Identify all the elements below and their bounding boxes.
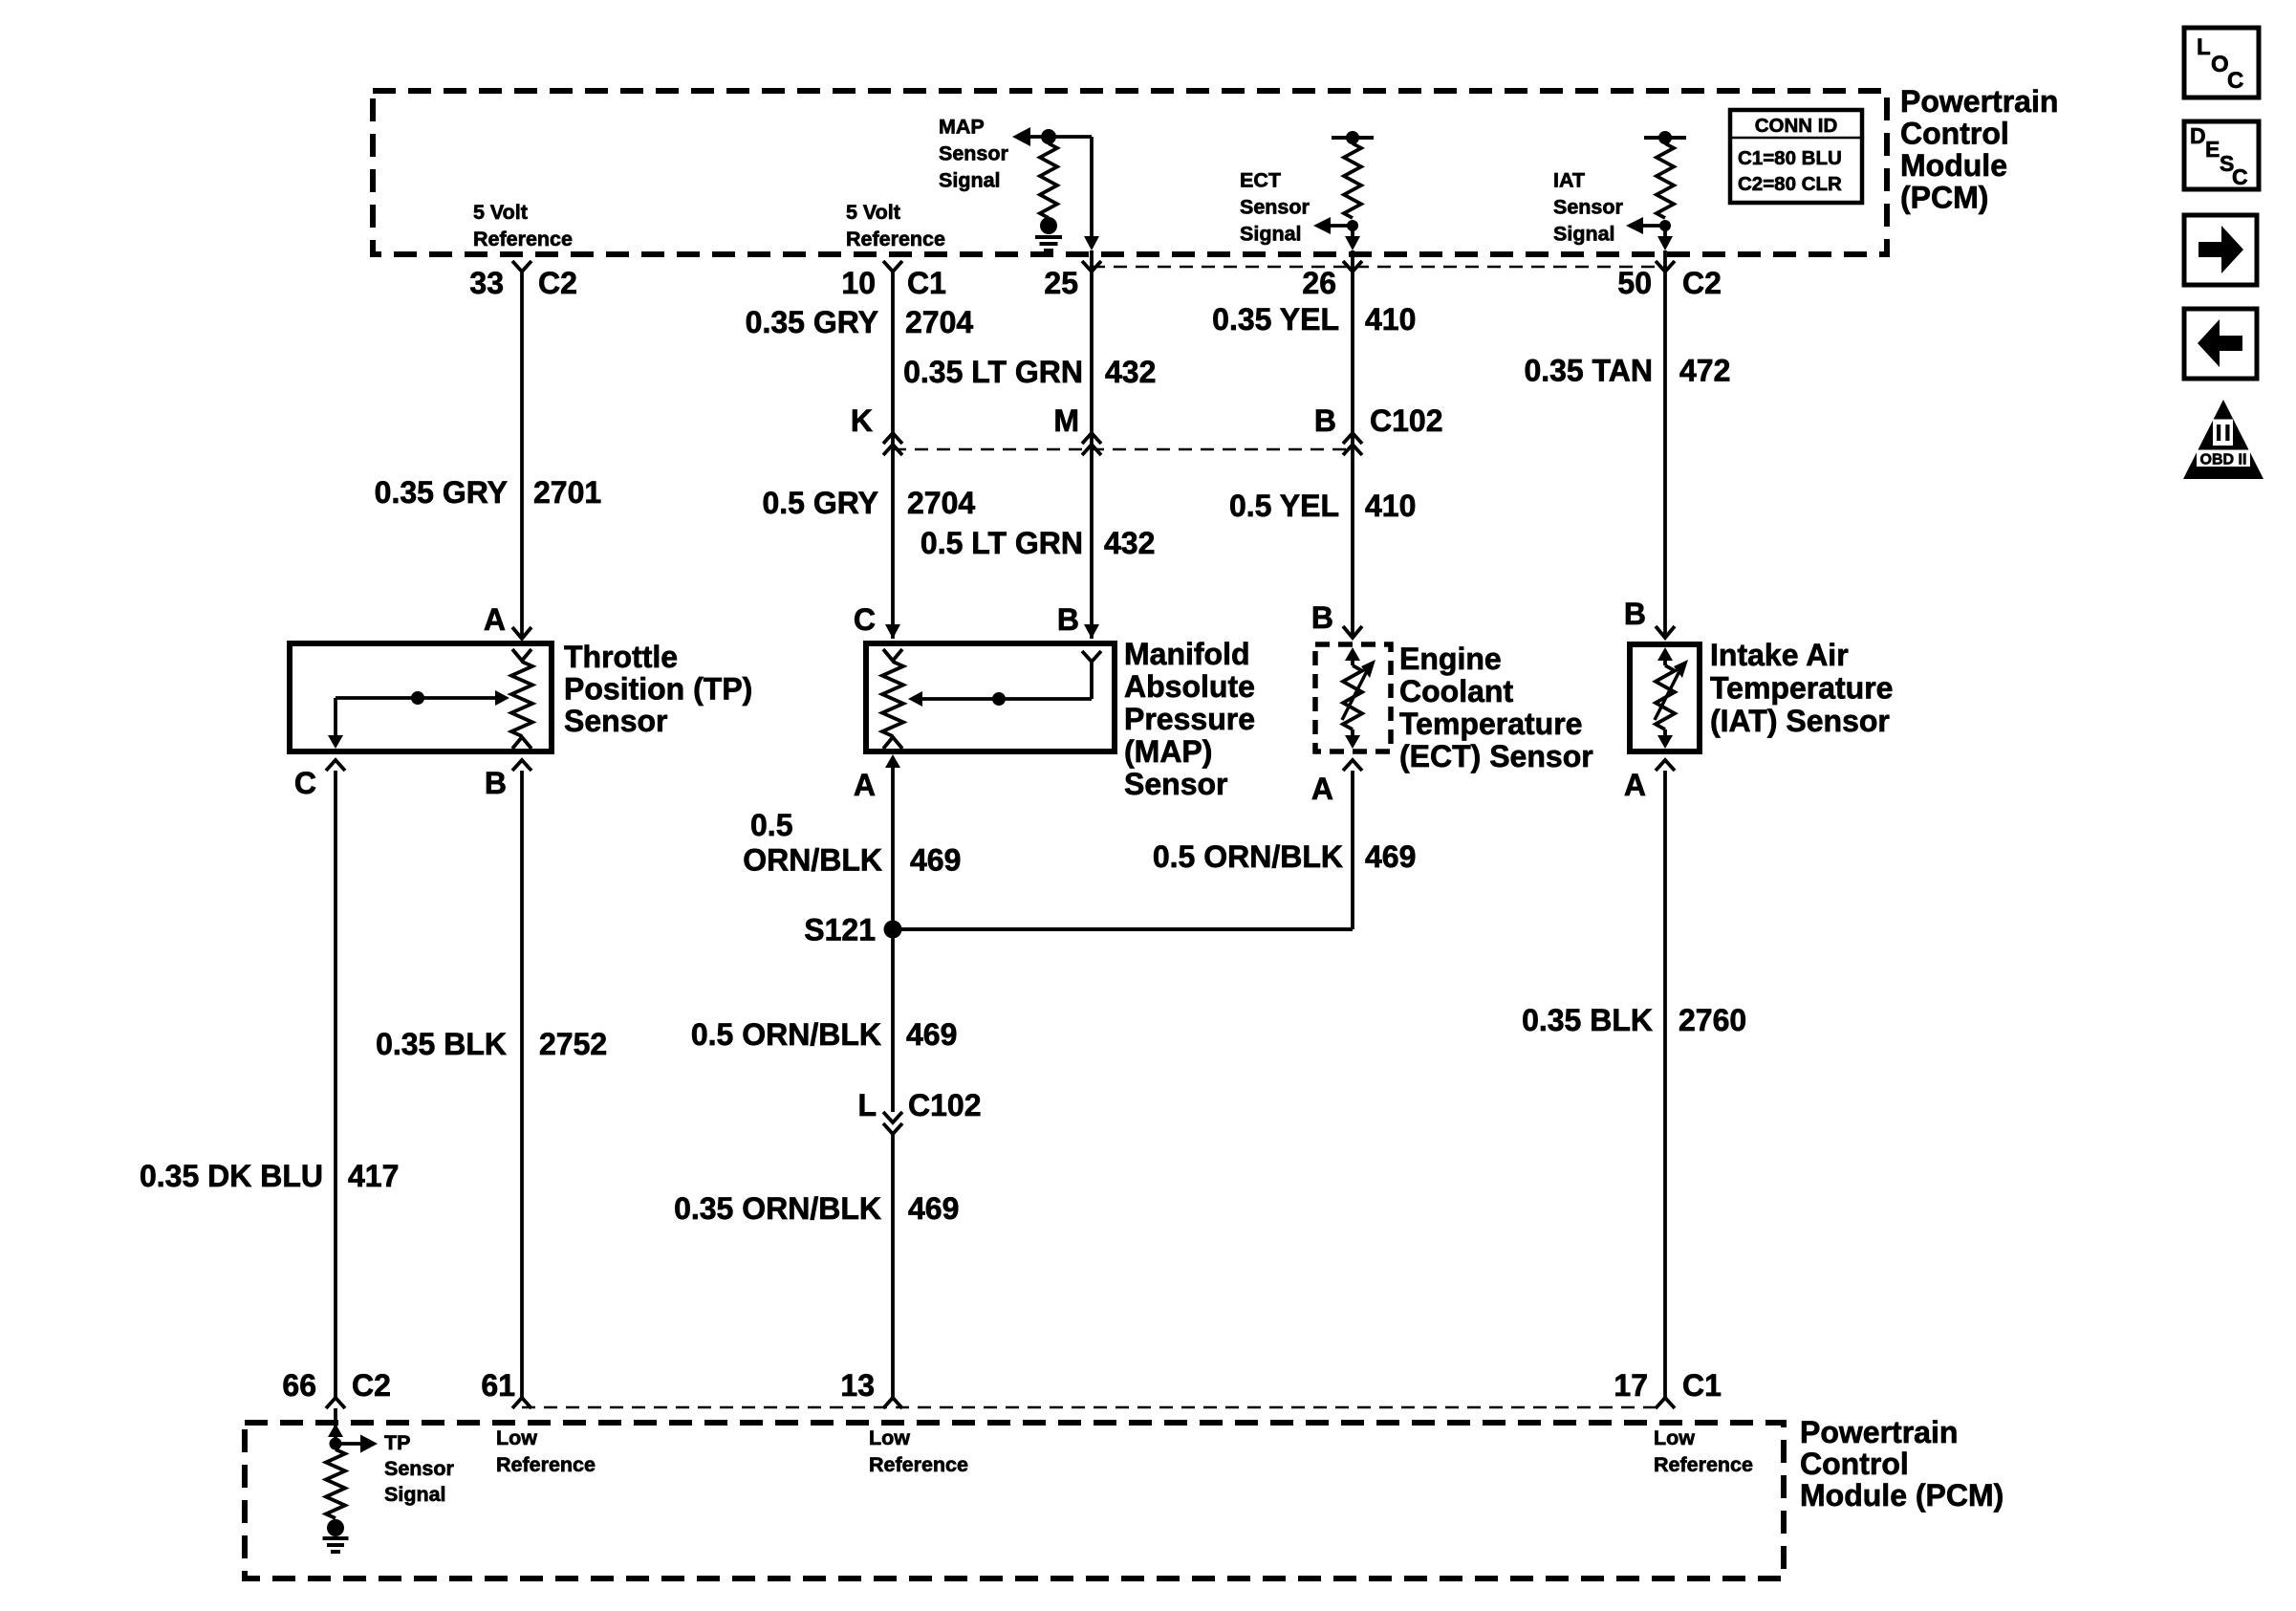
svg-text:Sensor: Sensor bbox=[1124, 767, 1227, 801]
svg-text:(ECT) Sensor: (ECT) Sensor bbox=[1399, 739, 1593, 773]
svg-text:Signal: Signal bbox=[1553, 223, 1615, 246]
svg-text:Module: Module bbox=[1900, 148, 2007, 183]
svg-text:Sensor: Sensor bbox=[1553, 196, 1624, 219]
svg-text:CONN ID: CONN ID bbox=[1755, 115, 1838, 137]
svg-text:417: 417 bbox=[348, 1159, 399, 1193]
svg-text:0.35 TAN: 0.35 TAN bbox=[1524, 354, 1653, 388]
svg-text:469: 469 bbox=[908, 1191, 959, 1226]
svg-text:2704: 2704 bbox=[905, 305, 973, 339]
svg-text:0.5 ORN/BLK: 0.5 ORN/BLK bbox=[1153, 839, 1343, 874]
svg-text:Sensor: Sensor bbox=[564, 704, 667, 738]
svg-text:Throttle: Throttle bbox=[564, 640, 678, 674]
svg-text:OBD II: OBD II bbox=[2200, 452, 2247, 468]
svg-text:Temperature: Temperature bbox=[1710, 671, 1893, 706]
svg-text:MAP: MAP bbox=[939, 116, 985, 139]
svg-text:Low: Low bbox=[869, 1426, 910, 1449]
svg-text:50: 50 bbox=[1617, 266, 1652, 300]
svg-text:0.35 BLK: 0.35 BLK bbox=[1522, 1003, 1653, 1037]
svg-text:ORN/BLK: ORN/BLK bbox=[743, 843, 882, 878]
svg-text:C2: C2 bbox=[352, 1368, 391, 1403]
svg-text:Low: Low bbox=[1654, 1426, 1695, 1449]
svg-text:0.5 GRY: 0.5 GRY bbox=[762, 486, 878, 520]
svg-text:Reference: Reference bbox=[1654, 1453, 1753, 1476]
svg-text:2701: 2701 bbox=[533, 475, 601, 510]
svg-text:C: C bbox=[294, 766, 316, 800]
svg-text:C2: C2 bbox=[538, 266, 577, 300]
svg-text:B: B bbox=[1624, 597, 1646, 631]
svg-text:Signal: Signal bbox=[939, 169, 1001, 192]
svg-text:A: A bbox=[484, 602, 506, 637]
svg-text:(IAT) Sensor: (IAT) Sensor bbox=[1710, 704, 1890, 738]
svg-text:432: 432 bbox=[1104, 526, 1155, 560]
svg-text:472: 472 bbox=[1679, 354, 1730, 388]
svg-text:B: B bbox=[1311, 600, 1333, 635]
svg-text:A: A bbox=[854, 768, 876, 802]
svg-text:Control: Control bbox=[1900, 117, 2009, 151]
svg-text:B: B bbox=[485, 766, 507, 800]
svg-text:C: C bbox=[854, 602, 876, 637]
svg-text:26: 26 bbox=[1302, 266, 1336, 300]
svg-text:Intake Air: Intake Air bbox=[1710, 638, 1849, 672]
svg-text:5 Volt: 5 Volt bbox=[846, 201, 900, 224]
svg-text:C1=80 BLU: C1=80 BLU bbox=[1738, 147, 1842, 169]
svg-text:410: 410 bbox=[1365, 489, 1416, 523]
svg-text:0.35 BLK: 0.35 BLK bbox=[376, 1027, 507, 1061]
svg-text:17: 17 bbox=[1614, 1368, 1648, 1403]
svg-text:C: C bbox=[2232, 164, 2248, 189]
svg-text:B: B bbox=[1057, 602, 1079, 637]
svg-text:66: 66 bbox=[282, 1368, 316, 1403]
svg-text:C102: C102 bbox=[1370, 403, 1443, 438]
svg-text:Reference: Reference bbox=[496, 1453, 596, 1476]
svg-text:C2: C2 bbox=[1682, 266, 1722, 300]
svg-text:13: 13 bbox=[840, 1368, 875, 1403]
svg-text:0.35 LT GRN: 0.35 LT GRN bbox=[903, 355, 1083, 389]
svg-text:Manifold: Manifold bbox=[1124, 637, 1250, 671]
svg-text:Sensor: Sensor bbox=[1240, 196, 1310, 219]
svg-text:0.5 LT GRN: 0.5 LT GRN bbox=[921, 526, 1083, 560]
svg-text:33: 33 bbox=[469, 266, 504, 300]
svg-text:0.5 ORN/BLK: 0.5 ORN/BLK bbox=[691, 1017, 881, 1052]
svg-text:Absolute: Absolute bbox=[1124, 669, 1255, 704]
svg-text:0.5: 0.5 bbox=[750, 808, 792, 842]
svg-text:5 Volt: 5 Volt bbox=[473, 201, 528, 224]
svg-text:Coolant: Coolant bbox=[1399, 674, 1513, 708]
svg-text:Pressure: Pressure bbox=[1124, 702, 1255, 736]
svg-text:L: L bbox=[2197, 34, 2211, 60]
svg-text:0.5 YEL: 0.5 YEL bbox=[1229, 489, 1339, 523]
svg-text:Low: Low bbox=[496, 1426, 537, 1449]
svg-text:25: 25 bbox=[1044, 266, 1078, 300]
svg-text:Temperature: Temperature bbox=[1399, 707, 1582, 741]
svg-text:TP: TP bbox=[384, 1431, 410, 1454]
svg-text:(PCM): (PCM) bbox=[1900, 181, 1988, 215]
svg-text:Signal: Signal bbox=[384, 1483, 446, 1506]
svg-text:Sensor: Sensor bbox=[939, 142, 1009, 165]
svg-text:A: A bbox=[1624, 768, 1646, 802]
svg-text:Reference: Reference bbox=[869, 1453, 968, 1476]
svg-text:61: 61 bbox=[481, 1368, 515, 1403]
svg-text:469: 469 bbox=[1365, 839, 1416, 874]
svg-text:L: L bbox=[857, 1088, 877, 1122]
svg-text:A: A bbox=[1311, 772, 1333, 806]
svg-text:C102: C102 bbox=[908, 1088, 982, 1122]
svg-text:10: 10 bbox=[841, 266, 876, 300]
svg-text:B: B bbox=[1314, 403, 1336, 438]
svg-text:C1: C1 bbox=[907, 266, 946, 300]
svg-text:Module (PCM): Module (PCM) bbox=[1800, 1478, 2004, 1513]
svg-text:C: C bbox=[2227, 68, 2243, 94]
svg-text:Reference: Reference bbox=[473, 228, 573, 250]
svg-text:432: 432 bbox=[1105, 355, 1156, 389]
svg-text:ECT: ECT bbox=[1240, 169, 1281, 192]
svg-text:0.35 ORN/BLK: 0.35 ORN/BLK bbox=[674, 1191, 881, 1226]
svg-text:Sensor: Sensor bbox=[384, 1457, 455, 1480]
svg-text:C2=80 CLR: C2=80 CLR bbox=[1738, 173, 1842, 195]
svg-text:O: O bbox=[2211, 52, 2229, 77]
svg-text:Engine: Engine bbox=[1399, 642, 1502, 676]
svg-text:0.35 DK BLU: 0.35 DK BLU bbox=[140, 1159, 323, 1193]
svg-text:2704: 2704 bbox=[907, 486, 975, 520]
svg-text:2760: 2760 bbox=[1679, 1003, 1746, 1037]
svg-text:410: 410 bbox=[1365, 302, 1416, 337]
svg-text:D: D bbox=[2190, 123, 2206, 148]
svg-text:469: 469 bbox=[906, 1017, 957, 1052]
svg-text:M: M bbox=[1053, 403, 1079, 438]
svg-text:Control: Control bbox=[1800, 1447, 1909, 1481]
svg-text:Reference: Reference bbox=[846, 228, 945, 250]
svg-text:S121: S121 bbox=[804, 913, 876, 947]
svg-text:0.35 GRY: 0.35 GRY bbox=[746, 305, 878, 339]
svg-text:0.35 YEL: 0.35 YEL bbox=[1212, 302, 1339, 337]
svg-text:K: K bbox=[851, 403, 873, 438]
svg-text:Powertrain: Powertrain bbox=[1800, 1415, 1958, 1449]
svg-text:0.35 GRY: 0.35 GRY bbox=[375, 475, 508, 510]
svg-text:(MAP): (MAP) bbox=[1124, 734, 1212, 769]
svg-text:IAT: IAT bbox=[1553, 169, 1585, 192]
svg-text:Powertrain: Powertrain bbox=[1900, 84, 2058, 119]
svg-text:Position (TP): Position (TP) bbox=[564, 672, 752, 707]
svg-text:2752: 2752 bbox=[539, 1027, 607, 1061]
svg-text:Signal: Signal bbox=[1240, 223, 1302, 246]
svg-text:469: 469 bbox=[910, 843, 961, 878]
svg-text:C1: C1 bbox=[1682, 1368, 1722, 1403]
svg-text:E: E bbox=[2205, 137, 2220, 162]
